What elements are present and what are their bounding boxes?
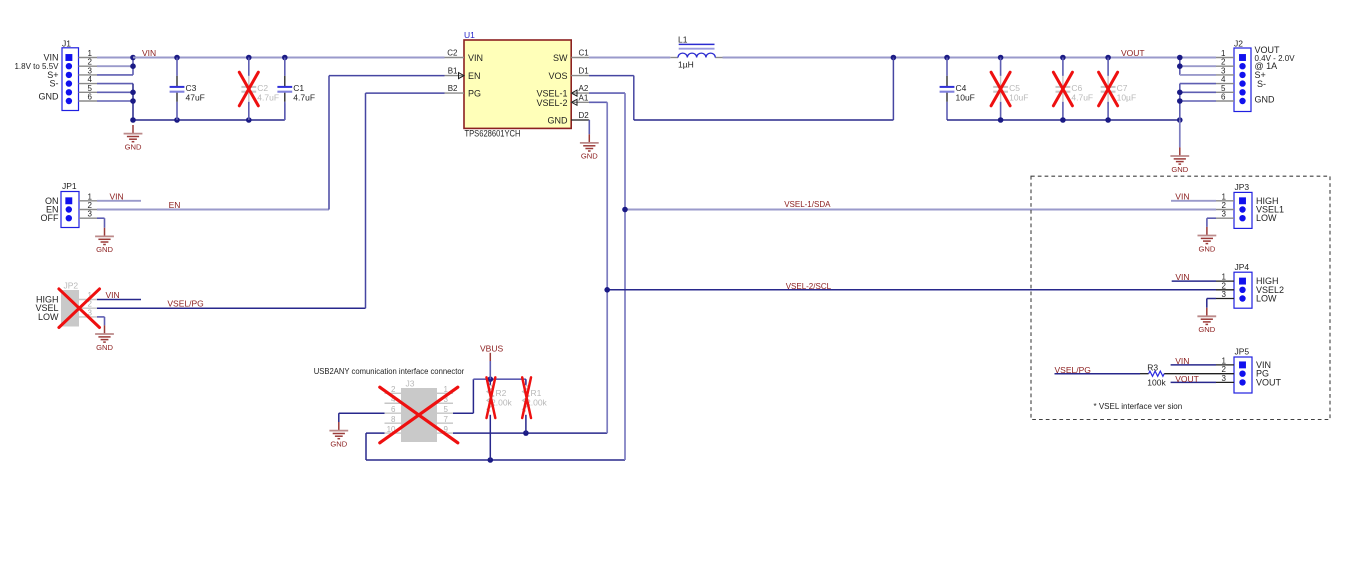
capacitor C4 10uF — [940, 58, 975, 121]
junction output gnd at C7 — [1105, 117, 1111, 123]
svg-text:JP1: JP1 — [62, 181, 77, 191]
svg-text:4.7uF: 4.7uF — [1071, 92, 1093, 102]
wire EN net — [97, 76, 445, 210]
svg-text:4.7uF: 4.7uF — [293, 92, 315, 102]
svg-text:PG: PG — [468, 89, 481, 99]
junction output gnd at C6 — [1060, 117, 1066, 123]
svg-text:1: 1 — [1222, 192, 1227, 201]
wire J2 pin1 — [1180, 57, 1216, 59]
capacitor C1 4.7uF — [277, 58, 315, 121]
JP2 pin stubs — [79, 300, 97, 317]
J2 pin stubs — [1216, 58, 1234, 102]
svg-text:S-: S- — [50, 79, 59, 89]
svg-text:L1: L1 — [678, 35, 688, 45]
capacitor C5 10uF (DNP) — [993, 58, 1028, 121]
ground input GND — [124, 125, 143, 151]
U1 pin SW (C1) — [553, 48, 589, 63]
J3 pin stubs — [385, 393, 454, 433]
wire J1 pin6 — [97, 100, 133, 102]
svg-text:VOUT: VOUT — [1256, 377, 1282, 387]
connector J3 (DNP) — [387, 379, 449, 443]
ground JP4 GND — [1197, 308, 1216, 334]
svg-text:100k: 100k — [1147, 378, 1166, 388]
ground J3 GND — [329, 422, 348, 448]
DNP cross over JP2 — [59, 289, 100, 328]
wire VSEL-1/SDA net — [625, 209, 1216, 211]
svg-text:3: 3 — [1222, 210, 1227, 219]
JP4 pin stubs — [1216, 281, 1234, 298]
svg-text:GND: GND — [581, 152, 598, 161]
svg-text:VIN: VIN — [106, 290, 120, 300]
svg-text:USB2ANY comunication interface: USB2ANY comunication interface connector — [314, 367, 465, 376]
svg-text:B1: B1 — [448, 67, 458, 76]
svg-text:1µH: 1µH — [678, 59, 694, 69]
junction J1 pin5 — [130, 90, 136, 96]
wire J2 pin5 — [1180, 91, 1216, 93]
DNP cross over J3 — [380, 387, 458, 443]
ground JP1 GND — [95, 228, 114, 254]
capacitor C2 4.7uF (DNP) — [241, 58, 279, 121]
resistor R1 2.00k (DNP) — [523, 385, 548, 411]
junction J2 pin2 — [1177, 63, 1183, 69]
junction VOUT at C7 — [1105, 55, 1111, 61]
wire J1 pin5 — [97, 91, 133, 93]
svg-text:JP5: JP5 — [1235, 347, 1250, 357]
svg-text:EN: EN — [468, 71, 481, 81]
wire J1 pin2 — [97, 65, 133, 67]
svg-text:VIN: VIN — [142, 48, 156, 58]
svg-text:1: 1 — [1222, 356, 1227, 365]
op IC U1 TPS628601YCH body — [464, 30, 571, 139]
svg-text:SW: SW — [553, 53, 568, 63]
inductor L1 1uH — [670, 35, 722, 70]
wire U1 GND to ground — [588, 120, 590, 134]
wire VSEL/PG to R3 — [1055, 373, 1141, 375]
connector J2 — [1221, 39, 1295, 112]
svg-text:3: 3 — [1221, 66, 1226, 75]
ground JP2 GND — [95, 325, 114, 351]
svg-text:VSEL/PG: VSEL/PG — [167, 299, 203, 309]
svg-text:A2: A2 — [579, 84, 589, 93]
connector JP5 — [1222, 347, 1282, 393]
DNP cross over R1 — [522, 377, 531, 418]
svg-text:2: 2 — [88, 201, 93, 210]
svg-text:LOW: LOW — [1256, 213, 1277, 223]
wire JP5 pin1 VIN stub — [1171, 364, 1216, 366]
wire J2 pin4 — [1180, 84, 1216, 120]
junction VOUT at C5 — [998, 55, 1004, 61]
svg-text:1: 1 — [1221, 49, 1226, 58]
wire input ground rail — [133, 119, 285, 121]
J1 pin stubs — [79, 58, 98, 102]
svg-text:3: 3 — [1222, 374, 1227, 383]
U1 pin VSEL-1 (A2) — [536, 84, 589, 99]
svg-text:GND: GND — [1198, 325, 1215, 334]
svg-text:6: 6 — [1221, 93, 1226, 102]
wire J3 pin10 / VSEL-1 bottom — [366, 433, 625, 460]
junction VSEL-1/SDA — [622, 207, 628, 213]
junction VOUT at C4 — [944, 55, 950, 61]
svg-text:VOUT: VOUT — [1175, 374, 1199, 384]
junction J1 pin1 — [130, 55, 136, 61]
junction gnd rail at C3 — [174, 117, 180, 123]
wire J1 pin4 — [97, 84, 133, 120]
capacitor C7 10µF (DNP) — [1101, 58, 1136, 121]
wire JP3 pin3 to ground — [1207, 218, 1216, 227]
junction VSEL-2/SCL — [604, 287, 610, 293]
JP1 pin stubs — [79, 201, 97, 218]
svg-text:JP4: JP4 — [1235, 262, 1250, 272]
svg-text:GND: GND — [39, 92, 60, 102]
junction VIN at C1 — [282, 55, 288, 61]
capacitor C3 47uF — [170, 58, 205, 121]
U1 pin EN (B1) — [445, 67, 481, 82]
svg-text:GND: GND — [1198, 244, 1215, 253]
wire J3 pin6 to ground — [339, 413, 385, 422]
svg-text:2: 2 — [1221, 58, 1226, 67]
wire JP2 pin1 VIN stub — [97, 299, 141, 301]
junction gnd rail at C2 — [246, 117, 252, 123]
wire J3 pin9 / VSEL-2 bottom — [453, 432, 607, 434]
svg-text:47uF: 47uF — [186, 92, 205, 102]
svg-text:3: 3 — [1222, 290, 1227, 299]
wire output ground rail — [947, 119, 1180, 121]
svg-text:10uF: 10uF — [1009, 92, 1028, 102]
svg-text:JP3: JP3 — [1235, 182, 1250, 192]
svg-text:C1: C1 — [579, 48, 590, 57]
svg-text:VIN: VIN — [110, 192, 124, 202]
U1 pin GND (D2) — [548, 111, 590, 126]
junction VSEL-2 at R1 — [523, 430, 529, 436]
svg-text:1: 1 — [1222, 273, 1227, 282]
wire R2 vertical — [489, 379, 491, 385]
wire R1 vertical — [525, 379, 527, 385]
svg-text:GND: GND — [1255, 95, 1276, 105]
wire JP1 pin3 to ground — [97, 218, 105, 228]
junction output gnd at J2 — [1177, 117, 1183, 123]
resistor R2 2.00k (DNP) — [487, 385, 512, 411]
svg-text:2: 2 — [1222, 365, 1227, 374]
svg-text:JP2: JP2 — [64, 280, 79, 290]
wire J3 pin5 to VBUS — [453, 379, 526, 413]
svg-text:C2: C2 — [447, 48, 458, 57]
junction J2 pin1 — [1177, 55, 1183, 61]
svg-text:U1: U1 — [464, 30, 475, 40]
wire J1 pin1 to VIN rail — [97, 57, 133, 59]
JP3 pin stubs — [1216, 201, 1234, 218]
ground U1 GND — [580, 134, 599, 160]
junction J2 pin5 — [1177, 90, 1183, 96]
svg-text:2.00k: 2.00k — [491, 398, 513, 408]
junction VIN at C2 — [246, 55, 252, 61]
junction VOUT at VOS riser — [891, 55, 897, 61]
svg-text:VOS: VOS — [548, 71, 567, 81]
svg-text:GND: GND — [1171, 165, 1188, 174]
svg-text:1: 1 — [88, 192, 93, 201]
svg-text:GND: GND — [330, 439, 347, 448]
svg-text:4: 4 — [1221, 75, 1226, 84]
wire VSEL-2 from U1 A1 — [589, 102, 607, 433]
connector J1 — [14, 39, 92, 111]
svg-text:D2: D2 — [579, 111, 590, 120]
svg-text:VSEL-1/SDA: VSEL-1/SDA — [784, 200, 831, 209]
junction J1 pin6 — [130, 98, 136, 104]
dashed box VSEL interface — [1031, 176, 1330, 419]
wire JP4 pin1 VIN stub — [1172, 280, 1216, 282]
resistor R3 100k — [1140, 363, 1216, 388]
wire J2 pin6 — [1180, 100, 1216, 102]
wire VSEL-1 from U1 A2 — [589, 93, 625, 460]
svg-text:VSEL-2: VSEL-2 — [536, 98, 567, 108]
svg-text:S-: S- — [1257, 79, 1266, 89]
svg-text:* VSEL interface ver sion: * VSEL interface ver sion — [1094, 402, 1183, 411]
svg-text:2: 2 — [88, 58, 93, 67]
svg-text:VIN: VIN — [1175, 272, 1189, 282]
svg-text:4: 4 — [88, 75, 93, 84]
svg-text:VOUT: VOUT — [1121, 48, 1145, 58]
svg-text:5: 5 — [88, 84, 93, 93]
JP5 pin stubs — [1216, 365, 1234, 383]
connector JP3 — [1222, 182, 1284, 228]
svg-text:1: 1 — [88, 49, 93, 58]
svg-text:3: 3 — [88, 66, 93, 75]
svg-text:2: 2 — [1222, 201, 1227, 210]
U1 pin PG (B2) — [445, 84, 482, 99]
svg-text:A1: A1 — [579, 93, 589, 102]
svg-text:4.7uF: 4.7uF — [257, 92, 279, 102]
wire L1 to VOUT rail — [723, 57, 1180, 59]
svg-text:VIN: VIN — [1175, 356, 1189, 366]
svg-text:2: 2 — [1222, 281, 1227, 290]
svg-text:GND: GND — [548, 116, 569, 126]
U1 pin VOS (D1) — [548, 67, 589, 82]
svg-text:B2: B2 — [448, 84, 458, 93]
svg-text:OFF: OFF — [41, 213, 59, 223]
DNP cross over R2 — [487, 377, 496, 418]
svg-text:VIN: VIN — [1175, 192, 1189, 202]
svg-text:D1: D1 — [579, 67, 590, 76]
wire JP1 pin1 VIN stub — [97, 200, 141, 202]
wire JP5 pin3 VOUT stub — [1171, 381, 1216, 383]
svg-text:3: 3 — [88, 210, 93, 219]
svg-text:10uF: 10uF — [956, 92, 975, 102]
svg-text:EN: EN — [169, 200, 181, 210]
connector JP1 — [41, 181, 93, 227]
wire JP2 pin3 to ground — [97, 317, 105, 326]
junction VSEL-1 at R2 — [488, 457, 494, 463]
ground J2 GND — [1170, 147, 1189, 173]
svg-text:10µF: 10µF — [1117, 92, 1137, 102]
svg-text:LOW: LOW — [1256, 294, 1277, 304]
svg-text:J3: J3 — [406, 379, 415, 389]
wire JP4 pin3 to ground — [1207, 299, 1216, 308]
svg-text:LOW: LOW — [38, 312, 59, 322]
wire J2 ground drop — [1179, 120, 1181, 147]
junction output gnd at C5 — [998, 117, 1004, 123]
wire SW to L1 — [589, 57, 670, 59]
svg-text:GND: GND — [96, 245, 113, 254]
wire JP3 pin1 VIN stub — [1171, 200, 1216, 202]
wire C1 bottom riser — [284, 104, 286, 121]
svg-text:R3: R3 — [1147, 363, 1158, 373]
power port VBUS — [480, 343, 503, 379]
junction J1 pin2 — [130, 63, 136, 69]
U1 pin VIN (C2) — [445, 48, 484, 63]
wire J1 pin3 — [97, 58, 133, 75]
junction VIN at C3 — [174, 55, 180, 61]
svg-text:GND: GND — [96, 343, 113, 352]
svg-text:VIN: VIN — [468, 53, 483, 63]
svg-text:VSEL-2/SCL: VSEL-2/SCL — [786, 282, 832, 291]
wire VIN rail — [133, 57, 445, 59]
svg-text:6: 6 — [88, 93, 93, 102]
connector JP4 — [1222, 262, 1284, 308]
svg-text:5: 5 — [1221, 84, 1226, 93]
junction VBUS — [488, 376, 494, 382]
wire VOS from U1 — [589, 58, 893, 121]
svg-text:TPS628601YCH: TPS628601YCH — [465, 129, 521, 139]
svg-text:GND: GND — [125, 142, 142, 151]
junction J2 pin6 — [1177, 98, 1183, 104]
svg-text:J1: J1 — [62, 39, 71, 49]
svg-text:VBUS: VBUS — [480, 343, 503, 353]
wire J2 pin3 — [1180, 58, 1216, 75]
svg-text:J2: J2 — [1234, 39, 1243, 49]
wire VSEL/PG net — [97, 93, 445, 308]
svg-text:VSEL/PG: VSEL/PG — [1055, 365, 1091, 375]
ground JP3 GND — [1198, 227, 1217, 253]
wire J2 pin2 — [1180, 65, 1216, 67]
wire VSEL-2/SCL net — [607, 289, 1216, 291]
U1 pin VSEL-2 (A1) — [536, 93, 589, 108]
capacitor C6 4.7uF (DNP) — [1056, 58, 1094, 121]
junction gnd rail at J1 — [130, 117, 136, 123]
svg-text:VIN: VIN — [43, 53, 58, 63]
connector JP2 (DNP) — [35, 280, 92, 326]
junction VOUT at C6 — [1060, 55, 1066, 61]
